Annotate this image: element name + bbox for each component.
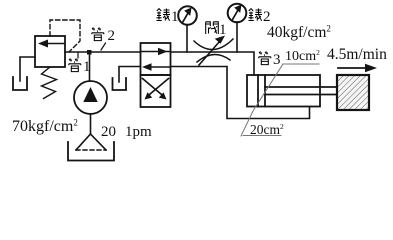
wire: pump to relief/main pipe <box>65 51 141 53</box>
svg-text:20cm2: 20cm2 <box>250 122 284 137</box>
label pipe1 (guan 1) <box>69 59 81 72</box>
flow control valve V1 arrow <box>199 36 225 66</box>
wire: riser junction to pump <box>89 52 91 81</box>
pump P1 <box>74 81 107 114</box>
cylinder CYL body <box>247 75 320 107</box>
label pipe2 (guan 2) <box>92 28 104 41</box>
svg-text:1: 1 <box>83 59 91 75</box>
label gauge2 (biao 2) <box>249 9 263 21</box>
label tick pipe2 <box>101 43 106 50</box>
piston <box>257 75 259 107</box>
wire: DV tank return left <box>119 67 141 83</box>
directional valve DV box bottom <box>141 75 171 107</box>
gauge G2 <box>228 4 247 23</box>
relief valve RV body <box>35 36 65 67</box>
svg-text:1: 1 <box>171 9 179 25</box>
svg-text:2: 2 <box>263 9 271 25</box>
wire: gauge G1 stem <box>186 25 188 52</box>
label valve1 (fa 1) <box>206 22 219 34</box>
label pipe3 (guan 3) <box>259 52 271 65</box>
gauge G1 <box>178 6 197 25</box>
svg-text:20: 20 <box>101 124 116 140</box>
load W hatched box <box>337 75 369 110</box>
leader line 10/20 annotation <box>241 64 319 136</box>
DV bottom-position crossed arrows <box>143 79 169 100</box>
svg-text:1: 1 <box>219 22 227 38</box>
flow control valve V1 arcs <box>194 39 233 50</box>
wire: gauge G2 stem <box>236 22 238 52</box>
relief valve pilot dashed line <box>50 20 80 52</box>
svg-text:10cm2: 10cm2 <box>285 48 320 64</box>
wire: DV to cylinder (pipe 3) <box>171 52 255 75</box>
strainer <box>76 134 91 150</box>
svg-text:4.5m/min: 4.5m/min <box>327 46 387 63</box>
svg-text:70kgf/cm2: 70kgf/cm2 <box>12 118 78 136</box>
svg-text:3: 3 <box>273 52 281 68</box>
piston rod <box>265 86 337 88</box>
DV top-position straight arrows <box>141 48 170 71</box>
relief valve spring <box>42 67 57 99</box>
tank T2 <box>113 78 127 90</box>
svg-text:2: 2 <box>108 28 116 44</box>
svg-text:1pm: 1pm <box>125 124 152 140</box>
main tank <box>68 142 114 161</box>
directional valve DV box top <box>141 43 171 75</box>
relief valve drain wire <box>20 57 35 81</box>
wire: DV return to cylinder rod side <box>171 67 310 119</box>
label gauge1 (biao 1) <box>157 9 171 21</box>
speed arrow <box>338 64 377 72</box>
drain tank <box>13 77 27 90</box>
wire: pump suction <box>90 114 92 134</box>
node junction dot <box>87 50 92 55</box>
relief valve internal arrow <box>38 40 64 48</box>
svg-text:40kgf/cm2: 40kgf/cm2 <box>267 24 331 42</box>
label tick pipe1 <box>77 53 79 58</box>
